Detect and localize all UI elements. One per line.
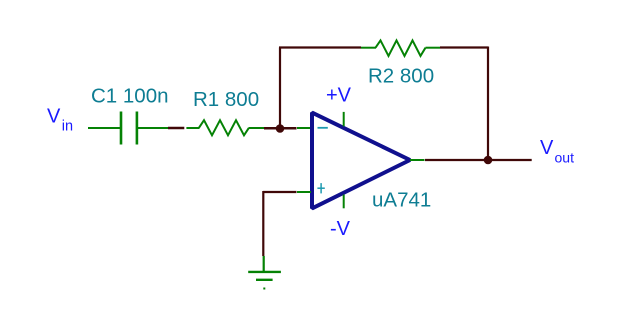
node Vout (540, 137, 574, 165)
resistor R1 (199, 120, 249, 135)
wire R1 to node A (249, 127, 265, 129)
wire ground stem (263, 256, 265, 271)
node Vin (47, 105, 73, 134)
svg-text:out: out (555, 150, 575, 166)
wire feedback top left (dark) (279, 46, 361, 48)
resistor R2 (376, 40, 426, 56)
wire op-amp output stub (410, 159, 425, 161)
wire feedback drop to output (dark) (487, 47, 489, 161)
wire stub to R1 (186, 127, 199, 129)
wire feedback riser (279, 48, 281, 129)
svg-text:-V: -V (330, 218, 351, 240)
op-amp U1 non-inverting input marker (317, 183, 324, 193)
node output junction (484, 156, 493, 165)
svg-text:V: V (47, 105, 61, 127)
wire C1 to stub (138, 127, 168, 129)
wire pin stub (dark) (168, 127, 184, 129)
wire output run (dark) (425, 159, 532, 161)
ground (248, 272, 281, 290)
node A junction (276, 124, 285, 133)
wire to op-amp non-inverting input (297, 191, 311, 193)
svg-text:+V: +V (326, 84, 352, 106)
svg-text:in: in (62, 118, 73, 134)
svg-text:R2 800: R2 800 (368, 65, 434, 88)
wire R2 lead-out (426, 47, 441, 49)
wire input to C1 (88, 127, 120, 129)
op-amp U1 inverting input marker (318, 127, 328, 129)
wire node A to op-amp inverting input (297, 127, 311, 129)
wire non-inverting input horizontal (dark) (263, 191, 297, 193)
svg-text:R1 800: R1 800 (193, 88, 259, 111)
wire node A horizontal (dark) (264, 127, 297, 130)
op-amp U1 triangle (312, 113, 410, 209)
capacitor C1 (121, 112, 137, 145)
wire ground riser (dark) (262, 191, 264, 256)
svg-text:V: V (540, 137, 554, 159)
svg-text:uA741: uA741 (372, 189, 431, 212)
wire to R2 (361, 47, 376, 49)
wire feedback top right (dark) (440, 46, 488, 48)
op-amp U1 negative supply pin (343, 195, 345, 209)
op-amp U1 positive supply pin (343, 112, 345, 126)
svg-text:C1 100n: C1 100n (91, 85, 169, 108)
